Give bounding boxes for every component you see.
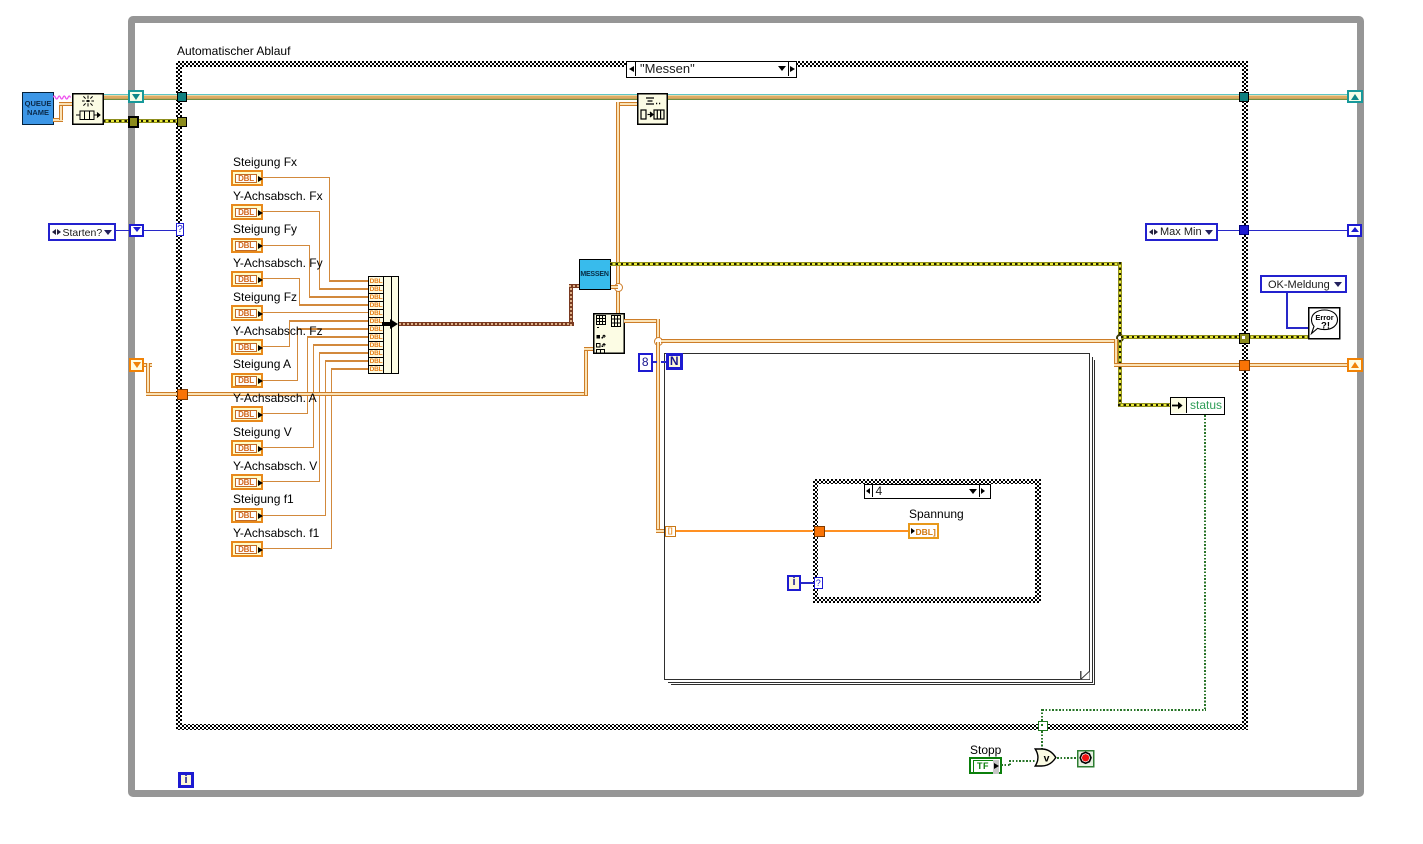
wire 8 to N	[653, 361, 657, 363]
shift register blue left	[129, 224, 144, 237]
re-draw wire over inner case white	[824, 530, 908, 532]
label Automatischer Ablauf	[177, 45, 290, 58]
control Steigung V	[233, 426, 292, 439]
wire Y-Achsabsch. A to build array	[263, 413, 308, 414]
subVI error dialog	[1308, 307, 1341, 340]
tunnel orange on case left	[177, 389, 188, 400]
junction dot node out	[654, 337, 663, 346]
wire dbl-array bottom bus	[144, 363, 152, 367]
tunnel error olive on case right	[1239, 333, 1250, 344]
wire Y-Achsabsch. V to build array	[263, 481, 320, 482]
build array node	[368, 276, 399, 374]
svg-text:v: v	[1043, 753, 1049, 765]
shift register teal right	[1347, 90, 1363, 103]
subVI Enqueue Element	[637, 93, 668, 125]
control Steigung Fz	[233, 291, 297, 304]
label Stopp	[970, 744, 1001, 757]
gate OR	[1034, 748, 1058, 767]
control Y-Achsabsch. Fx	[233, 190, 323, 203]
wire Y-Achsabsch. Fx to build array	[263, 211, 320, 212]
tunnel orange on case right	[1239, 360, 1250, 371]
for loop border with stacked shadow	[664, 353, 1090, 681]
wire Y-Achsabsch. Fy to build array	[263, 278, 300, 279]
wire dbl-array node output right	[624, 319, 660, 323]
svg-text:?!: ?!	[1321, 321, 1330, 332]
tunnel case selector ?	[176, 223, 184, 236]
constant QUEUE NAME	[22, 92, 54, 125]
wire Steigung Fy to build array	[263, 245, 310, 246]
terminal i while loop	[178, 772, 194, 789]
label Spannung	[909, 508, 964, 521]
tunnel queue left on case	[177, 92, 187, 102]
12 DBL controls column	[0, 0, 1423, 1]
junction dot messen	[614, 283, 623, 292]
tunnel green on case bottom	[1038, 721, 1048, 731]
control Y-Achsabsch. Fz	[233, 325, 323, 338]
shift register teal left	[128, 90, 144, 103]
tunnel queue right on case	[1239, 92, 1249, 102]
control Y-Achsabsch. A	[233, 392, 317, 405]
wire error from obtain queue to case	[103, 119, 179, 123]
for loop fold corner	[1080, 671, 1090, 680]
control Y-Achsabsch. V	[233, 460, 317, 473]
tunnel auto-index on for loop	[665, 526, 677, 538]
inner case structure	[813, 479, 1041, 603]
subVI MESSEN	[579, 259, 611, 290]
wire queue refnum horizontal	[103, 94, 1348, 100]
control Steigung Fy	[233, 223, 297, 236]
junction error dot	[1116, 334, 1124, 342]
local variable Starten?	[48, 223, 116, 241]
wire boolean stopp to or	[1001, 764, 1011, 766]
control Steigung f1	[233, 493, 294, 506]
indicator status (unbundle)	[1170, 397, 1225, 416]
control Y-Achsabsch. Fy	[233, 257, 323, 270]
wire error from MESSEN right	[610, 262, 1121, 266]
wire boolean starten	[115, 230, 130, 232]
inner case selector "4"	[864, 484, 991, 500]
tunnel orange on inner case	[814, 526, 825, 537]
wire Y-Achsabsch. Fz to build array	[263, 346, 290, 347]
tunnel blue on case right	[1239, 225, 1249, 235]
subVI Obtain Queue U1	[72, 93, 104, 125]
shift register orange right	[1347, 358, 1363, 372]
local variable OK-Meldung	[1260, 275, 1347, 294]
stop button	[1077, 750, 1095, 768]
wire dbl-array enqueue drop	[618, 102, 637, 106]
wire orange scalar in for loop	[676, 530, 814, 532]
wire Steigung A to build array	[263, 380, 298, 381]
shift register orange left	[129, 358, 144, 372]
node index/reshape array	[593, 313, 625, 354]
wire dbl-array down to for loop	[656, 342, 660, 531]
wire boolean maxmin	[1218, 230, 1347, 232]
case selector "Messen"	[626, 61, 797, 78]
control Stopp TF	[969, 757, 1002, 775]
wire string pink squiggle	[53, 93, 73, 101]
wire boolean status down	[1204, 415, 1206, 710]
wire Steigung f1 to build array	[263, 515, 326, 516]
wire Steigung Fx to build array	[263, 177, 330, 178]
control Steigung A	[233, 358, 291, 371]
wire dbl-array from queue name to obtain queue	[53, 118, 63, 122]
tunnel error olive on case left	[177, 117, 187, 127]
terminal N	[666, 353, 683, 370]
wire boolean or to stop	[1057, 757, 1078, 759]
wire boolean ok-meldung	[1286, 293, 1288, 328]
constant 8	[638, 353, 653, 372]
local variable Max Min	[1145, 223, 1218, 241]
control Steigung Fx	[233, 156, 297, 169]
tunnel ? on inner case	[814, 577, 823, 589]
tunnel error olive on while border	[128, 116, 140, 128]
terminal i inner	[787, 575, 801, 592]
control Y-Achsabsch. f1	[233, 527, 319, 540]
wire Steigung V to build array	[263, 447, 314, 448]
wire Steigung Fz to build array	[263, 312, 368, 313]
indicator Spannung DBL array	[908, 523, 939, 539]
wire Y-Achsabsch. f1 to build array	[263, 548, 332, 549]
wire cluster brown from build array to MESSEN	[399, 322, 574, 326]
case structure border	[176, 61, 1248, 730]
shift register blue right	[1347, 224, 1362, 237]
